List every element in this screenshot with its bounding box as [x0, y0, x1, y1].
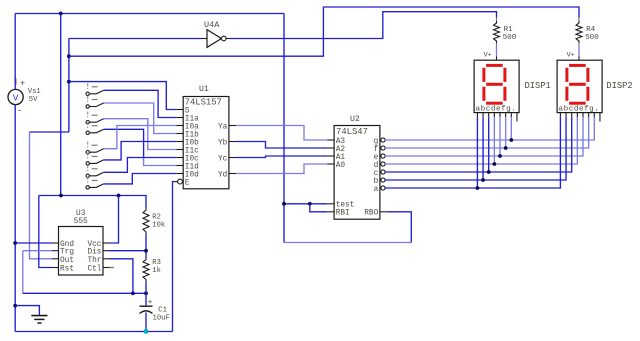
wire branch to DISP1 segment d	[493, 117, 495, 164]
wire vertical x61 top rail to +5 rail	[60, 14, 62, 196]
switch S5 (SPDT key)	[86, 142, 104, 154]
node +5 rail Vcc branch	[117, 194, 121, 198]
svg-text:I0c: I0c	[185, 156, 199, 164]
wire Vs1 plus terminal up	[14, 14, 16, 90]
svg-text:Thr: Thr	[87, 257, 101, 265]
wire bottom ground rail	[15, 331, 172, 333]
svg-text:I1b: I1b	[185, 132, 199, 140]
wire switch S3 to U1 I1c	[104, 119, 177, 150]
op-amp style inverter U4A 74LS04	[202, 20, 230, 47]
svg-text:Yc: Yc	[218, 156, 228, 164]
svg-text:500: 500	[585, 34, 599, 42]
svg-text:b: b	[374, 178, 379, 186]
svg-text:DISP1: DISP1	[525, 81, 551, 91]
node Thr line at C1	[144, 291, 148, 295]
svg-text:Rst: Rst	[60, 266, 74, 274]
svg-text:U1: U1	[199, 85, 209, 94]
wire U2 test line	[284, 203, 327, 205]
wire U2 segment b to displays	[385, 117, 566, 180]
svg-text:a: a	[374, 186, 379, 194]
node segment f branch	[504, 146, 508, 150]
svg-text:U3: U3	[76, 210, 86, 218]
wire U2 RBO feedback loop	[387, 212, 411, 243]
wire switch S8 to U1 I0d	[104, 174, 177, 184]
node test line x284	[282, 202, 286, 206]
svg-text:V+: V+	[567, 51, 575, 59]
svg-text:g: g	[374, 138, 379, 146]
wire U4A output to R1	[230, 12, 497, 39]
node U4A input net y81	[67, 80, 71, 84]
svg-text:E: E	[185, 180, 190, 188]
svg-text:d: d	[374, 162, 379, 170]
wire U1 E enable to ground rail	[173, 182, 174, 332]
resistor R1 500	[494, 18, 517, 44]
svg-text:R3: R3	[152, 259, 161, 267]
wire R4 to DISP2 V+	[578, 43, 580, 47]
wire U2 segment d to displays	[385, 117, 577, 164]
svg-text:U2: U2	[350, 115, 360, 124]
svg-text:c: c	[374, 170, 379, 178]
svg-text:V: V	[13, 93, 19, 103]
node test line RBI branch	[308, 202, 312, 206]
node R2 R3 Dis junction	[144, 249, 148, 253]
display DISP1 seven-segment	[474, 51, 551, 113]
node segment a branch	[476, 186, 480, 190]
wire branch to DISP1 segment c	[488, 117, 490, 172]
timer U3 555	[52, 210, 114, 275]
DISP1 bottom pin stubs	[477, 113, 517, 122]
voltage source Vs1 5V	[8, 79, 41, 117]
wire 555 Trg to Thr node	[23, 250, 52, 252]
node +5 rail x61	[59, 194, 63, 198]
switch S4 (SPDT key)	[86, 122, 104, 134]
svg-text:DISP2: DISP2	[606, 81, 632, 91]
node U4A input net y56	[67, 54, 71, 58]
wire 555 Dis to R2 R3 node	[110, 250, 147, 252]
wire U4A input horizontal	[69, 38, 202, 40]
svg-text:R4: R4	[586, 26, 596, 34]
wire U2 RBI to test line	[310, 204, 327, 212]
ground	[15, 306, 47, 323]
wire +5V rail down to 555 Rst	[39, 196, 52, 268]
resistor R3 1k	[143, 258, 161, 282]
svg-text:10k: 10k	[152, 222, 165, 230]
wire switch S1 to U1 I1a	[104, 90, 177, 117]
wire vertical x284 top rail to test line and RBO loop	[283, 14, 285, 243]
wire switch S6 to U1 I0b	[104, 142, 177, 160]
multiplexer U1 74LS157	[174, 85, 236, 189]
wire U2 segment f to displays	[385, 117, 588, 148]
svg-text:abcdefg.: abcdefg.	[559, 105, 600, 113]
wire U1 Yc to U2 A1	[236, 156, 327, 158]
wire U2 segment g to displays	[385, 117, 594, 140]
svg-text:U4A: U4A	[204, 20, 220, 30]
DISP2 bottom pin stubs	[560, 113, 600, 122]
svg-text:74LS157: 74LS157	[185, 98, 222, 108]
svg-text:A3: A3	[336, 138, 346, 146]
svg-text:A1: A1	[336, 154, 346, 162]
svg-text:10uF: 10uF	[153, 314, 170, 322]
svg-text:I0b: I0b	[185, 140, 199, 148]
resistor R2 10k	[143, 208, 165, 234]
wire U2 segment c to displays	[385, 117, 572, 172]
svg-text:A0: A0	[336, 162, 346, 170]
wire U1 Yd to U2 A0	[236, 164, 327, 174]
wire U1 Yb to U2 A2	[236, 142, 327, 149]
switch S7 (SPDT key)	[86, 165, 104, 177]
wire U1 Ya to U2 A3	[236, 126, 327, 141]
svg-text:-: -	[17, 106, 22, 116]
wire switch S4 to U1 I1d lower	[144, 157, 177, 166]
wire R2 bottom to node	[145, 234, 147, 258]
resistor R4 500	[576, 18, 599, 44]
svg-text:Dis: Dis	[87, 249, 101, 257]
capacitor C1 10uF electrolytic	[140, 293, 170, 331]
switch S3 (SPDT key)	[86, 112, 104, 124]
svg-text:Vs1: Vs1	[28, 88, 41, 96]
node top rail junction	[59, 12, 63, 16]
svg-text:Yb: Yb	[218, 140, 228, 148]
node segment e branch	[498, 154, 502, 158]
svg-text:test: test	[336, 202, 355, 210]
wire branch to DISP1 segment b	[482, 117, 484, 180]
svg-text:C1: C1	[158, 307, 167, 315]
svg-text:RBI: RBI	[336, 210, 350, 218]
svg-text:R2: R2	[152, 214, 161, 222]
wire 555 Out to U4A input	[30, 131, 69, 133]
wire U4A input net vertical	[68, 39, 70, 133]
svg-text:V+: V+	[484, 51, 492, 59]
wire Vs1 minus down left side	[14, 105, 16, 332]
svg-text:f: f	[374, 146, 379, 154]
svg-text:1k: 1k	[152, 267, 161, 275]
node C1 to ground rail (highlighted)	[144, 329, 148, 333]
decoder U2 74LS47	[327, 115, 387, 219]
wire R1 to DISP1 V+	[496, 43, 498, 47]
wire R3 bottom to C1 node	[145, 282, 147, 294]
svg-text:A2: A2	[336, 146, 346, 154]
svg-text:I1c: I1c	[185, 148, 199, 156]
switch S1 (SPDT key)	[86, 83, 104, 95]
node segment d branch	[492, 162, 496, 166]
wire branch to DISP1 segment e	[499, 117, 501, 156]
svg-text:I0a: I0a	[185, 124, 199, 132]
wire switch S5 to U1 I0a	[104, 126, 177, 149]
node Vs1 minus to ground symbol	[13, 304, 17, 308]
wire switch S4 to U1 I1d upper	[104, 129, 144, 156]
node Vs1 minus to 555 Gnd	[13, 241, 17, 245]
wire branch to DISP1 segment g	[510, 117, 512, 140]
node segment c branch	[487, 170, 491, 174]
node segment g branch	[509, 138, 513, 142]
wire switch S2 to U1 I1b	[104, 103, 177, 134]
wire 555 Thr down	[110, 259, 133, 294]
switch S8 (SPDT key)	[86, 177, 104, 189]
wire +5V rail to 555 area	[39, 196, 146, 209]
svg-text:Trg: Trg	[60, 249, 74, 257]
svg-text:R1: R1	[504, 26, 514, 34]
svg-text:Yd: Yd	[218, 172, 227, 180]
svg-text:5V: 5V	[29, 96, 38, 104]
wire switch S7 to U1 I0c	[104, 158, 177, 173]
wire branch to DISP1 segment f	[505, 117, 507, 148]
svg-text:500: 500	[503, 34, 517, 42]
svg-text:I0d: I0d	[185, 172, 199, 180]
display DISP2 seven-segment	[557, 51, 633, 113]
wire +5 rail to 555 Vcc	[110, 196, 119, 244]
svg-text:74LS47: 74LS47	[336, 127, 368, 137]
wire U2 segment e to displays	[385, 117, 583, 156]
svg-text:I1d: I1d	[185, 164, 199, 172]
wire top +5V rail	[15, 13, 284, 15]
wire Vs1 minus to 555 Gnd	[15, 242, 52, 244]
wire S select line	[69, 82, 176, 110]
svg-text:e: e	[374, 154, 379, 162]
svg-text:RBO: RBO	[364, 210, 378, 218]
svg-text:Ya: Ya	[218, 124, 228, 132]
svg-text:555: 555	[74, 218, 88, 226]
svg-text:Ctl: Ctl	[87, 266, 101, 274]
svg-text:Out: Out	[60, 257, 74, 265]
wire branch to DISP1 segment a	[476, 117, 478, 188]
switch S6 (SPDT key)	[86, 153, 104, 165]
svg-text:+: +	[20, 80, 25, 89]
svg-text:abcdefg.: abcdefg.	[476, 105, 517, 113]
wire U2 segment a to displays	[385, 117, 560, 188]
wire y56 branch to top right rail	[69, 7, 579, 56]
node segment b branch	[481, 178, 485, 182]
svg-text:I1a: I1a	[185, 116, 199, 124]
node Thr line left	[131, 291, 135, 295]
switch S2 (SPDT key)	[86, 96, 104, 108]
svg-text:S: S	[185, 108, 190, 116]
